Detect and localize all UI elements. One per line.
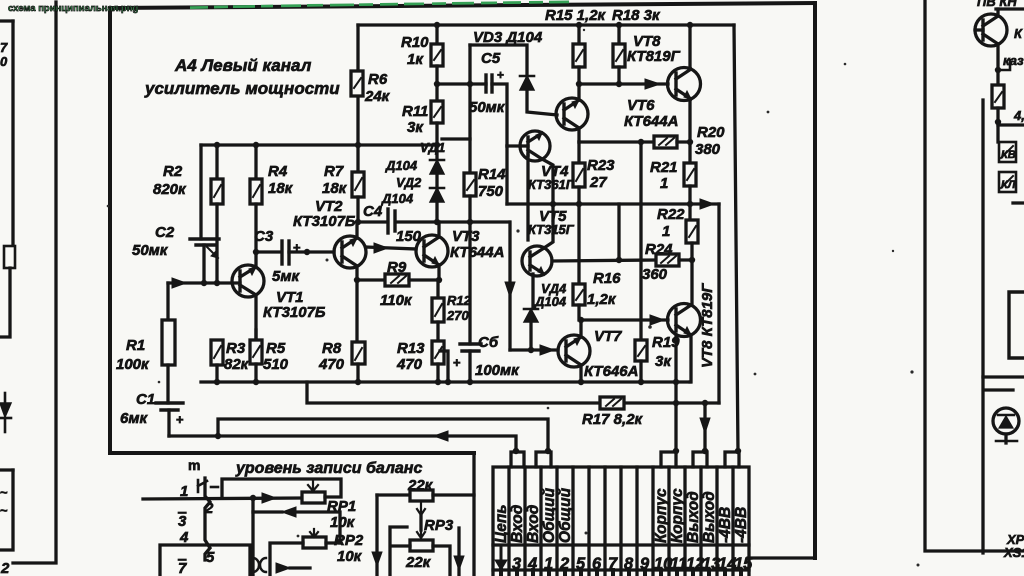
connector labels rotated [493, 487, 750, 543]
resistor R15 [577, 25, 580, 44]
diode VD2 [430, 188, 444, 202]
stub over pin 1 [536, 452, 551, 467]
svg-text:82к: 82к [224, 356, 250, 373]
svg-text:R17 8,2к: R17 8,2к [582, 411, 644, 428]
svg-text:VT6: VT6 [627, 97, 655, 114]
svg-text:R6: R6 [368, 71, 388, 88]
wire ground rail y=382 [201, 380, 690, 383]
arrow on y204 output tap [700, 199, 714, 209]
node junction C5 left [467, 81, 473, 87]
svg-text:КТ819Г: КТ819Г [627, 48, 681, 65]
node junction RP1 row [250, 495, 256, 501]
wire return rail y=419 [218, 419, 548, 452]
white box right middle [1009, 292, 1024, 358]
svg-text:50мк: 50мк [469, 99, 506, 116]
node junction R6/R7 [355, 142, 361, 148]
svg-text:15: 15 [734, 555, 753, 573]
wire VT4 base feed from C5 [507, 144, 520, 147]
stub over pin 3 [511, 452, 524, 467]
svg-text:3к: 3к [407, 119, 424, 136]
resistor R5 [254, 330, 257, 340]
wire supply column x=734 from top rail to connector [734, 25, 738, 452]
resistor R13 [436, 322, 439, 341]
stub over pins 12-13 [693, 452, 707, 467]
connector number row bottom line [493, 568, 749, 571]
tick R13 side link [440, 351, 448, 382]
svg-text:R10: R10 [401, 34, 429, 51]
wire RP2 feed y=512 [253, 512, 340, 528]
wire R8 bottom [356, 364, 359, 382]
svg-text:+: + [176, 412, 184, 427]
resistor R1 [166, 283, 169, 320]
svg-text:4: 4 [179, 529, 189, 546]
node junction VT2 collector [355, 219, 361, 225]
node junction drive/R18 [616, 81, 622, 87]
svg-text:m: m [188, 457, 200, 473]
wire mid horizontal y=204 [507, 202, 719, 205]
wire below resistor [0, 268, 10, 337]
svg-text:К: К [1014, 26, 1023, 41]
resistor R4 [254, 145, 257, 179]
wire VT8 top emitter down [688, 99, 691, 163]
potentiometer RP3 bottom [410, 540, 433, 551]
switch lower box [160, 545, 250, 576]
resistor R3 [211, 340, 223, 365]
wire main box top border [110, 3, 815, 8]
svg-text:Цепь: Цепь [493, 504, 510, 543]
svg-text:470: 470 [396, 356, 423, 373]
svg-text:VД2: VД2 [396, 175, 422, 190]
arrow on bias column [505, 282, 515, 297]
wire R16 bottom to VT8b base [579, 305, 668, 320]
wire RP3 left column [375, 495, 378, 576]
node junction y260/x619 [616, 257, 622, 263]
svg-text:5: 5 [576, 555, 586, 573]
svg-text:360: 360 [642, 266, 668, 283]
svg-text:18к: 18к [268, 180, 294, 197]
wire right node y125 [998, 123, 1024, 126]
resistor R10 [435, 25, 438, 44]
svg-text:VД1: VД1 [420, 140, 445, 155]
svg-text:R9: R9 [387, 259, 407, 276]
arrow on input rail pointing left [434, 431, 448, 441]
svg-text:7: 7 [178, 560, 187, 576]
wire node to C5 branch [437, 82, 470, 85]
node junction base/C2 [201, 280, 207, 286]
node junction rail/R8 [355, 379, 361, 385]
svg-text:R23: R23 [587, 157, 615, 174]
svg-text:КТ644А: КТ644А [624, 113, 678, 130]
svg-text:С4: С4 [363, 203, 383, 220]
capacitor C4 [386, 209, 389, 233]
svg-text:100мк: 100мк [475, 362, 520, 379]
svg-text:R24: R24 [645, 241, 673, 258]
arrow on RP1 row [262, 493, 276, 503]
wire RP2 left lead [270, 543, 303, 576]
wire VT2 emitter down to R8 [355, 266, 358, 342]
wire left box right edge [11, 21, 14, 246]
svg-text:RP1: RP1 [327, 498, 356, 515]
svg-text:150: 150 [396, 228, 422, 245]
wire R1 to C1 [166, 365, 169, 403]
node junction drive/R15 [576, 81, 582, 87]
paper specks [107, 29, 920, 567]
wire VD3/C5 branch frame [470, 45, 527, 76]
node junction right x998 y122 [995, 119, 1001, 125]
resistor R18 [617, 25, 620, 44]
svg-text:VD3 Д104: VD3 Д104 [473, 29, 543, 46]
svg-text:усилитель мощности: усилитель мощности [144, 79, 340, 98]
resistor R6 [351, 71, 363, 96]
svg-text:R4: R4 [268, 163, 288, 180]
wire VD1-VD2 [435, 174, 438, 188]
contact box KV [999, 142, 1016, 162]
arrow on VT3 base wire [374, 243, 388, 253]
wire down arrow column x=459 [458, 495, 460, 576]
svg-text:Д104: Д104 [385, 158, 418, 173]
wire RP3 wiper link [419, 515, 422, 530]
wire VT7 collector up [579, 320, 582, 337]
node junction y204/VT4-VT5 [550, 201, 556, 207]
resistor R24 (horizontal) [656, 254, 679, 266]
connector column dividers [509, 467, 733, 576]
svg-text:Вход: Вход [525, 504, 542, 543]
node junction y436/x218 [215, 433, 221, 439]
wire output column x=676 to connector [674, 382, 677, 452]
svg-text:XS1: XS1 [1003, 545, 1024, 560]
svg-text:6: 6 [592, 555, 602, 573]
arrow at switch row [276, 563, 290, 573]
wire right column x=983 [981, 100, 984, 553]
svg-text:Д104: Д104 [534, 294, 567, 309]
svg-text:Общий: Общий [541, 487, 558, 543]
wire right circuit left border [925, 0, 1024, 551]
node junction bias/R14 [467, 219, 473, 225]
svg-text:R21: R21 [650, 159, 678, 176]
wire VT6 collector up [577, 84, 580, 100]
node junction R15 top [576, 22, 582, 28]
svg-text:750: 750 [478, 183, 504, 200]
svg-text:~: ~ [0, 485, 8, 500]
RP3 top wiper arrow [417, 503, 425, 515]
polarity arrow at C2 [207, 247, 218, 258]
switch contact marks [253, 558, 259, 572]
transistor VT6 [556, 98, 588, 130]
svg-text:100к: 100к [116, 356, 150, 373]
wire R4 bottom to VT1 emitter [254, 204, 257, 266]
arrow on RP3 left column [372, 552, 382, 566]
svg-text:1: 1 [660, 175, 668, 192]
wire VT6 emitter to rail y142 [577, 128, 580, 142]
transistor VT3 [416, 235, 448, 267]
svg-text:1,2к: 1,2к [587, 291, 617, 308]
svg-text:R2: R2 [163, 163, 183, 180]
svg-text:110к: 110к [380, 292, 413, 309]
node junction rail/R3 [214, 379, 220, 385]
wire R15 bottom to drive node [577, 67, 580, 84]
svg-text:RP3: RP3 [424, 517, 454, 534]
svg-text:27: 27 [589, 174, 607, 191]
wire C2 column [199, 145, 202, 239]
wire right node stub [998, 60, 1010, 70]
connector pin ticks below [501, 570, 741, 576]
resistor R23 [577, 142, 580, 163]
svg-text:-4ВВ: -4ВВ [733, 507, 750, 543]
arrow on VT8 base wire [645, 79, 660, 89]
green scribble over top border [190, 2, 569, 8]
svg-text:С1: С1 [136, 391, 155, 408]
svg-text:380: 380 [695, 141, 721, 158]
node junction stub pin15 [735, 448, 741, 454]
svg-text:22к: 22к [407, 477, 434, 494]
node junction stub pin1 [545, 448, 551, 454]
RP3 bottom wiper arrow [417, 530, 425, 538]
wire main box left border [108, 8, 112, 453]
resistor R14 [469, 84, 471, 173]
svg-text:2: 2 [0, 560, 10, 576]
node junction stub pin11 [673, 448, 679, 454]
arrow on VT7 base wire [540, 345, 554, 355]
svg-text:Корпус: Корпус [653, 488, 670, 543]
wire VT3 collector up [437, 222, 440, 237]
svg-text:7: 7 [0, 40, 8, 55]
arrow on VT8b base wire [650, 315, 664, 325]
wire C3 left lead [256, 250, 281, 253]
svg-text:КТ361Г: КТ361Г [528, 177, 575, 192]
wire emitter rail y=142 [579, 140, 654, 143]
svg-text:11: 11 [670, 555, 687, 573]
node junction rail/C6 [467, 379, 473, 385]
stub over pins 10-11 [661, 452, 676, 467]
wire VT2 collector to node y222 [355, 222, 358, 238]
arrow on VT1 base wire [172, 278, 186, 288]
wire R13 bottom [436, 364, 439, 382]
node junction bias/diodes [434, 219, 440, 225]
capacitor C2 [190, 237, 219, 240]
svg-text:схема принципиальная.png: схема принципиальная.png [8, 3, 139, 14]
svg-text:2: 2 [204, 500, 214, 517]
node junction VT2 emitter / R9 [354, 277, 360, 283]
wire R18 bottom [617, 67, 620, 84]
svg-text:А4 Левый канал: А4 Левый канал [174, 56, 312, 75]
node junction rail/R5 [253, 379, 259, 385]
wire VT7 emitter down [579, 365, 582, 382]
svg-text:1к: 1к [407, 51, 424, 68]
svg-text:уровень записи баланс: уровень записи баланс [235, 460, 422, 477]
wire R24 right to R22 column [679, 258, 692, 261]
svg-text:R7: R7 [324, 163, 344, 180]
svg-text:10к: 10к [337, 548, 363, 565]
svg-text:каз: каз [1003, 53, 1024, 68]
node junction C3 tap [253, 249, 259, 255]
wire RP3 bottom leads [390, 527, 450, 576]
svg-text:2: 2 [559, 555, 569, 573]
diode VD4 [524, 309, 538, 322]
svg-text:1: 1 [180, 483, 188, 500]
wire right y377 [983, 375, 1024, 378]
wire from pin15 area to box bottom right [749, 538, 762, 558]
svg-text:10к: 10к [330, 514, 356, 531]
node junction rail/R13b [445, 379, 451, 385]
svg-text:9: 9 [640, 555, 650, 573]
svg-text:1: 1 [544, 555, 553, 573]
svg-text:470: 470 [318, 356, 345, 373]
transistor VT8 (top) [668, 68, 701, 101]
svg-text:Выход: Выход [701, 491, 718, 543]
arrow on output drop [700, 418, 710, 433]
node junction y204/R21 [687, 201, 693, 207]
svg-text:R8: R8 [322, 340, 342, 357]
resistor right 4.7k [992, 85, 1004, 108]
svg-text:КТ3107Б: КТ3107Б [263, 304, 326, 321]
wire R11 bottom through rail to VD1 [435, 123, 438, 158]
node junction rail/R13 [435, 379, 441, 385]
wire R7 bottom to VT2 collector node [356, 197, 359, 222]
wire right circuit top box edge [996, 7, 1024, 10]
node junction VT8 collector / rail [687, 22, 693, 28]
svg-text:4,: 4, [1013, 108, 1024, 123]
svg-text:3: 3 [512, 555, 521, 573]
svg-text:R18 3к: R18 3к [612, 7, 661, 24]
svg-text:КТ644А: КТ644А [450, 244, 504, 261]
node junction rail/VT8b emitter [673, 379, 679, 385]
svg-text:ПВ КН: ПВ КН [977, 0, 1017, 9]
wire C5 column down to mid wire [508, 146, 510, 204]
wire main box right border [813, 3, 817, 558]
node junction x676/y403 [673, 400, 679, 406]
wire R22 bottom to VT8b collector [690, 243, 693, 305]
svg-text:270: 270 [446, 308, 469, 323]
svg-text:R3: R3 [226, 340, 246, 357]
arrow on RP2 feed pointing left [282, 507, 296, 517]
node junction on VT2 base wire [304, 249, 310, 255]
wire VT3 emitter to R9 node [437, 265, 440, 280]
svg-text:Д104: Д104 [381, 191, 414, 206]
svg-text:510: 510 [263, 356, 289, 373]
transistor VT5 [522, 246, 552, 276]
wire R3 bottom [215, 365, 218, 382]
node junction stub pin13 [702, 448, 708, 454]
wire x253 drop [251, 498, 254, 576]
svg-text:50мк: 50мк [132, 242, 169, 259]
diode (left circuit, pointing down) [4, 393, 7, 403]
svg-text:0: 0 [0, 54, 8, 69]
transistor VT right [975, 14, 1007, 46]
wire VT5 emitter down to VD4 [531, 274, 534, 308]
potentiometer RP2 [303, 537, 326, 548]
transistor VT4 [520, 131, 550, 161]
node junction R10 top [434, 22, 440, 28]
svg-text:КТ3107Б: КТ3107Б [293, 213, 356, 230]
node junction R18 top [616, 22, 622, 28]
svg-text:Общий: Общий [557, 487, 574, 543]
svg-text:5: 5 [206, 549, 215, 566]
lower box right top edge [985, 388, 1013, 391]
diode VD3 [520, 76, 534, 90]
transistor VT1 [232, 265, 264, 297]
wire main box bottom edge drop [472, 453, 475, 576]
svg-text:R5: R5 [266, 340, 286, 357]
wire main box bottom border left part [110, 451, 474, 455]
svg-text:VT7: VT7 [594, 328, 622, 345]
wire VT1 collector down [254, 295, 257, 340]
resistor R17 (horizontal) [600, 397, 624, 409]
switch pole line [205, 478, 210, 560]
svg-text:R22: R22 [657, 206, 685, 223]
svg-text:18к: 18к [322, 180, 348, 197]
wire input rail y=436 [169, 436, 516, 452]
connector number row divider [493, 543, 749, 546]
wire output drop with arrow [703, 403, 706, 452]
stub over pins 14-15 [725, 452, 739, 467]
svg-text:4: 4 [527, 555, 537, 573]
svg-text:7: 7 [608, 555, 618, 573]
node junction R2 top [214, 142, 220, 148]
resistor R16 [577, 204, 580, 284]
svg-text:RP2: RP2 [334, 532, 364, 549]
wire VT8b emitter corner [690, 335, 691, 382]
svg-text:Выход: Выход [685, 491, 702, 543]
potentiometer RP3 top [377, 493, 410, 496]
svg-text:R19: R19 [652, 334, 680, 351]
resistor R21 [684, 163, 696, 186]
svg-text:R13: R13 [397, 340, 425, 357]
wire top supply rail y=25 [358, 23, 734, 26]
svg-text:R11: R11 [402, 103, 428, 120]
svg-text:1: 1 [662, 223, 670, 240]
wire input stage rail y=145 [201, 143, 437, 146]
svg-text:С3: С3 [254, 228, 274, 245]
node junction R22 bottom [689, 257, 695, 263]
svg-text:С2: С2 [155, 224, 175, 241]
connector pin numbers [512, 555, 753, 573]
connector box (left circuit) [0, 468, 13, 471]
node junction y204/R23 [576, 201, 582, 207]
capacitor C6 [460, 342, 481, 345]
svg-text:22к: 22к [405, 554, 432, 571]
svg-text:3к: 3к [655, 353, 672, 370]
connector cell arrow down (Цепь column) [500, 548, 503, 564]
svg-text:Сб: Сб [478, 334, 499, 351]
svg-text:+: + [453, 355, 461, 370]
svg-text:820к: 820к [153, 181, 187, 198]
wire VT3 base with arrow [366, 247, 416, 249]
node junction y142/R19 column [638, 139, 644, 145]
capacitor C5 [470, 82, 486, 85]
wire R14 bottom [468, 196, 471, 222]
svg-text:КТ315Г: КТ315Г [528, 222, 575, 237]
wire R23 bottom [577, 187, 580, 203]
svg-text:R1: R1 [126, 337, 145, 354]
svg-text:R15 1,2к: R15 1,2к [545, 7, 607, 24]
wire VT7 base [510, 348, 558, 351]
resistor R2 [215, 145, 218, 179]
wire VT8 top collector [688, 25, 691, 69]
svg-text:КВ: КВ [1001, 149, 1016, 161]
node junction VT7 emitter/rail [578, 379, 584, 385]
node junction base/R2 [214, 280, 220, 286]
node junction stub pin3 [513, 448, 519, 454]
resistor R19 [635, 340, 647, 361]
contact box KL [999, 172, 1016, 192]
svg-text:+: + [497, 68, 504, 82]
svg-text:КТ646А: КТ646А [584, 363, 638, 380]
wire long vertical bus x=56 [13, 2, 56, 563]
transistor VT7 [558, 335, 590, 367]
wire VT right collector [996, 9, 999, 16]
resistor R7 [356, 145, 359, 172]
wire R6 column [356, 25, 359, 145]
